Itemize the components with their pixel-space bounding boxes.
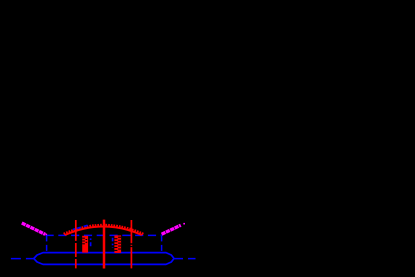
right hatched bar — [114, 235, 121, 253]
dashed boundary right vertical — [161, 235, 163, 252]
dashed boundary top horizontal — [46, 234, 162, 236]
inner dashed edge right of left bar — [90, 238, 92, 246]
center support line — [103, 220, 106, 269]
left hatched bar — [82, 236, 88, 253]
right magenta hatch band — [162, 225, 181, 234]
centerline right segment — [174, 258, 196, 260]
dashed boundary left vertical — [46, 235, 48, 252]
dome arc hatch ticks — [64, 224, 143, 235]
left support dash-dot line — [75, 220, 77, 268]
right magenta end dot — [183, 223, 185, 225]
vessel stadium outline — [34, 253, 174, 265]
centerline left segment — [11, 258, 34, 260]
dome arc — [65, 227, 142, 236]
inner dashed edge left of right bar — [112, 238, 114, 248]
left magenta end dot — [45, 234, 47, 236]
left magenta hatch band — [22, 223, 45, 234]
dashed chord above left arc flank — [73, 225, 89, 230]
right support dash-dot line — [130, 220, 132, 268]
